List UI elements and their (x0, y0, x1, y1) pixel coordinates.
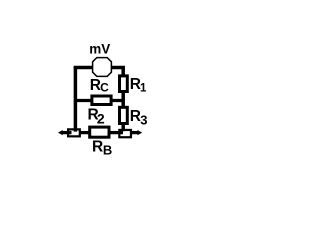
svg-text:R: R (92, 139, 103, 156)
wire: right rail (top corner, through R1 and R3, into right terminal box) (121, 67, 125, 131)
wire: middle branch from left rail to right rail through RC (75, 99, 123, 102)
svg-text:mV: mV (89, 41, 110, 56)
wire: bottom segment between left terminal box and RB (80, 131, 93, 134)
resistor RC (horizontal, middle branch) (92, 96, 111, 105)
current arrow (left terminal, pointing left) (58, 130, 63, 135)
wire: bottom lead from left arrow into left terminal box (61, 131, 72, 134)
wire: bottom lead from right terminal box to right arrow (131, 131, 140, 134)
wire: top branch through voltmeter (74, 66, 125, 70)
svg-text:R: R (130, 108, 141, 125)
resistor R1 (vertical, right rail upper) (120, 76, 128, 92)
terminal box left (junction of left rail and bottom lead) (68, 129, 80, 136)
svg-text:C: C (100, 80, 109, 94)
svg-text:2: 2 (97, 110, 105, 126)
svg-text:1: 1 (140, 83, 147, 95)
voltmeter M1 (octagonal meter bubble) (93, 58, 112, 77)
resistor R3 (vertical, right rail lower) (120, 107, 128, 123)
current arrow (right terminal, pointing right) (138, 130, 143, 135)
resistor RB (horizontal, bottom branch) (90, 127, 109, 137)
wire: bottom segment between RB and right terminal box (109, 131, 123, 134)
terminal box right (junction of right rail and bottom lead) (119, 130, 131, 137)
wire: left rail (node A, top-left corner down into left terminal box) (74, 67, 78, 132)
svg-text:3: 3 (140, 113, 147, 128)
svg-text:B: B (103, 142, 112, 157)
